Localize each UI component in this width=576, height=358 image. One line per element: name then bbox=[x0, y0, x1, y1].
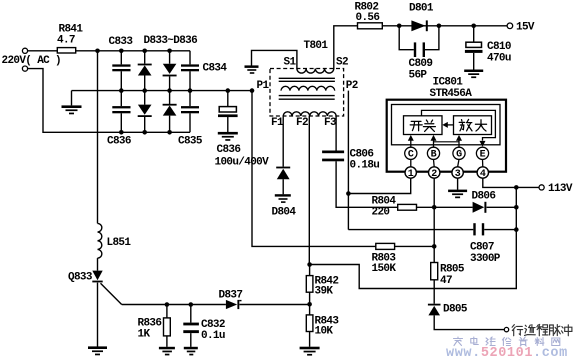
pin B bbox=[427, 147, 439, 160]
wire Q833 top bbox=[97, 258, 99, 271]
wire C807 line bbox=[348, 229, 516, 231]
svg-text:C835: C835 bbox=[178, 136, 203, 148]
node top rail D834 bbox=[167, 49, 172, 54]
diode D804 bbox=[272, 167, 297, 219]
svg-text:100u/400V: 100u/400V bbox=[215, 157, 270, 169]
wire D836 column bottom bbox=[169, 91, 171, 133]
wire C836 bridge column bbox=[120, 91, 122, 133]
svg-text:2: 2 bbox=[431, 169, 437, 180]
node feedback D806 bbox=[514, 205, 519, 210]
capacitor C809 bbox=[409, 42, 433, 81]
svg-text:39K: 39K bbox=[315, 286, 334, 298]
wire left vertical from R841 node down to L851 bbox=[97, 51, 99, 224]
resistor R843 bbox=[306, 315, 339, 337]
wire C809 parallel loop bbox=[399, 26, 439, 50]
wire pin3 to ground bbox=[457, 178, 459, 190]
node mid rail D833 bbox=[142, 88, 147, 93]
arrow G into amp bbox=[456, 135, 462, 147]
wire D835 column bottom bbox=[144, 91, 146, 133]
capacitor C810 bbox=[465, 41, 511, 65]
svg-text:F3: F3 bbox=[324, 117, 337, 129]
svg-text:56P: 56P bbox=[409, 70, 428, 82]
svg-text:G: G bbox=[456, 150, 462, 161]
wire AC ground stem bbox=[71, 91, 73, 106]
wire top rail bbox=[76, 50, 190, 52]
node 15V rail D801 right bbox=[437, 24, 442, 29]
svg-text:P1: P1 bbox=[257, 80, 270, 92]
diode D806 bbox=[472, 190, 496, 213]
node R803 pin2 bbox=[432, 244, 437, 249]
node bottom rail D835 bbox=[142, 130, 147, 135]
capacitor C807 bbox=[470, 223, 501, 265]
transformer S winding bbox=[284, 57, 348, 74]
node top rail C833 bbox=[119, 49, 124, 54]
svg-text:STR456A: STR456A bbox=[430, 88, 473, 100]
pin links C1 B2 G3 E4 bbox=[411, 159, 483, 167]
pin E bbox=[476, 147, 488, 160]
svg-text:113V: 113V bbox=[548, 183, 573, 195]
resistor R841 bbox=[57, 24, 83, 54]
ground C832 bbox=[184, 347, 198, 356]
wire D805 to flyback terminal bbox=[434, 315, 504, 329]
wire F3 lead to C806 bbox=[335, 116, 337, 151]
svg-text:P2: P2 bbox=[346, 80, 358, 92]
diode D801 bbox=[409, 3, 434, 32]
wire middle rail bbox=[72, 90, 253, 92]
svg-text:150K: 150K bbox=[372, 263, 397, 275]
node feedback 113V bbox=[514, 185, 519, 190]
svg-text:R805: R805 bbox=[440, 264, 465, 276]
wire C833 column bbox=[120, 51, 122, 91]
capacitor C835 bbox=[178, 106, 203, 148]
node bottom rail D836 bbox=[167, 130, 172, 135]
svg-text:S1: S1 bbox=[284, 57, 297, 69]
pin C bbox=[405, 147, 417, 160]
wire D834 column top bbox=[169, 51, 171, 91]
node 15V rail C810 bbox=[471, 24, 476, 29]
pin 3 bbox=[452, 167, 463, 180]
ground R836 bbox=[159, 347, 175, 356]
transformer T801 dashed box bbox=[270, 40, 344, 116]
capacitor C834 bbox=[181, 62, 227, 74]
svg-text:D804: D804 bbox=[272, 207, 297, 219]
svg-text:F1: F1 bbox=[271, 117, 284, 129]
node top rail R841 bbox=[95, 49, 100, 54]
wire R803 to pin2 column bbox=[395, 245, 435, 247]
wire S2 lead up to 15V rail bbox=[334, 26, 358, 69]
ground C836 electrolytic bbox=[218, 132, 238, 141]
pin 1 bbox=[405, 167, 416, 180]
svg-text:C809: C809 bbox=[409, 58, 433, 70]
svg-text:www.520101.com: www.520101.com bbox=[446, 346, 568, 358]
ground pin3 bbox=[448, 190, 467, 199]
node bottom rail C836b bbox=[119, 130, 124, 135]
arrow C into switch bbox=[408, 135, 414, 147]
resistor R803 bbox=[372, 243, 397, 274]
capacitor C806 bbox=[322, 149, 379, 172]
wire P2 lead down bbox=[347, 91, 349, 230]
IC switch block 开关 bbox=[404, 116, 443, 135]
ground Q833 bbox=[88, 346, 107, 355]
svg-text:47: 47 bbox=[440, 275, 452, 287]
wire C806 down and right to R804 bbox=[336, 161, 398, 207]
ground AC middle rail bbox=[62, 105, 82, 114]
svg-text:C833: C833 bbox=[109, 36, 134, 48]
label flyback pulse 行逆程脉冲 bbox=[512, 324, 572, 335]
wire Q833 gate diagonal bbox=[101, 283, 122, 304]
svg-text:C836: C836 bbox=[107, 136, 131, 148]
svg-text:T801: T801 bbox=[304, 40, 329, 52]
wire P2 node to pin1 bbox=[348, 178, 410, 193]
link B G bbox=[434, 141, 460, 143]
terminal 113V bbox=[539, 183, 573, 195]
svg-text:D837: D837 bbox=[219, 290, 243, 302]
svg-text:C807: C807 bbox=[470, 242, 494, 254]
transformer P winding bbox=[281, 80, 358, 92]
wire F2 lead down to R842 bbox=[308, 116, 310, 265]
wire Q833 emitter line to D837 to R842 mid node bbox=[122, 304, 310, 306]
wire F1 lead to D804 bbox=[282, 116, 284, 167]
node mid rail C834 bbox=[188, 88, 193, 93]
wire C836 electrolytic column bbox=[227, 91, 229, 132]
svg-text:10K: 10K bbox=[315, 325, 334, 337]
ground R843 bbox=[300, 347, 320, 356]
svg-text:C: C bbox=[408, 150, 414, 161]
svg-text:D833~D836: D833~D836 bbox=[144, 35, 198, 47]
resistor R805 bbox=[431, 263, 465, 288]
diode D833 bbox=[138, 64, 152, 76]
resistor R836 bbox=[138, 318, 171, 341]
svg-text:1K: 1K bbox=[138, 329, 151, 341]
transformer F winding bbox=[271, 112, 337, 129]
transformer core bbox=[279, 78, 335, 99]
ground S1 bbox=[245, 65, 259, 73]
svg-text:D801: D801 bbox=[409, 3, 434, 15]
diode D835 bbox=[138, 105, 152, 117]
arrow B into switch bbox=[431, 135, 437, 147]
wire pin4 to 113V bbox=[483, 178, 539, 187]
svg-text:L851: L851 bbox=[107, 237, 132, 249]
svg-text:1: 1 bbox=[408, 169, 414, 180]
node C832 bbox=[189, 302, 194, 307]
pin 2 bbox=[429, 167, 440, 180]
node P1 bbox=[250, 80, 270, 93]
feedback line switch to E bbox=[422, 110, 496, 140]
capacitor C833 bbox=[109, 36, 134, 71]
diode D805 bbox=[428, 304, 468, 316]
transistor Q833 bbox=[68, 271, 103, 284]
diode D836 bbox=[163, 104, 177, 116]
wire Q833 cathode to ground bbox=[97, 283, 99, 347]
wire 15V rail after R802 bbox=[382, 25, 507, 27]
resistor R842 bbox=[306, 276, 338, 298]
wire R805 to D805 bbox=[433, 280, 435, 304]
wire C810 stem bbox=[473, 26, 475, 70]
node top rail D833 bbox=[142, 49, 147, 54]
svg-text:4: 4 bbox=[480, 169, 486, 180]
wire C834 column bbox=[189, 51, 191, 91]
IC amp block 放大 bbox=[454, 116, 492, 135]
svg-text:0.1u: 0.1u bbox=[201, 330, 225, 342]
wire feedback loop R842 node to right rail bbox=[310, 187, 517, 288]
svg-text:0.18u: 0.18u bbox=[350, 160, 380, 172]
node 15V rail D801 left bbox=[397, 24, 402, 29]
svg-text:B: B bbox=[431, 150, 437, 161]
node feedback C807 bbox=[514, 227, 519, 232]
wire C835 column bbox=[189, 91, 191, 133]
node R842 R843 mid bbox=[307, 302, 312, 307]
node P2 junction bbox=[346, 191, 351, 196]
svg-text:C810: C810 bbox=[487, 41, 511, 53]
arrow into E bbox=[480, 141, 486, 147]
pin G bbox=[453, 147, 465, 160]
IC U801 outer box bbox=[387, 77, 506, 172]
IC inner box bbox=[392, 105, 501, 145]
svg-text:220V( AC ): 220V( AC ) bbox=[2, 55, 62, 67]
svg-text:IC801: IC801 bbox=[433, 77, 464, 89]
svg-text:3300P: 3300P bbox=[470, 253, 501, 265]
svg-text:15V: 15V bbox=[516, 21, 535, 33]
wire P1 branch down to R803 bbox=[252, 91, 376, 247]
terminal 15V bbox=[507, 21, 535, 33]
wire C832 stem bbox=[190, 305, 192, 347]
svg-text:0.56: 0.56 bbox=[356, 12, 380, 24]
node R842 top bbox=[307, 262, 312, 267]
wire pin2 node to D806 bbox=[434, 206, 516, 208]
svg-text:C836: C836 bbox=[217, 144, 241, 156]
svg-text:F2: F2 bbox=[296, 117, 308, 129]
resistor R802 bbox=[355, 2, 383, 29]
wire D833 column top bbox=[144, 51, 146, 91]
wire 220V bottom terminal to bottom rail bbox=[28, 69, 190, 133]
svg-text:Q833: Q833 bbox=[68, 272, 93, 284]
svg-text:470u: 470u bbox=[487, 53, 511, 65]
resistor R804 bbox=[372, 196, 417, 219]
svg-text:S2: S2 bbox=[336, 57, 348, 69]
svg-text:C834: C834 bbox=[203, 62, 228, 74]
terminal flyback pulse bbox=[504, 327, 508, 331]
node R836 bbox=[165, 302, 170, 307]
terminal 220V AC bbox=[2, 48, 62, 71]
arrow amp to switch bbox=[442, 122, 453, 128]
node mid rail C836 bbox=[226, 88, 231, 93]
svg-text:4.7: 4.7 bbox=[57, 35, 75, 47]
node mid rail C833 bbox=[119, 88, 124, 93]
svg-text:D805: D805 bbox=[443, 304, 468, 316]
inductor L851 bbox=[98, 223, 132, 258]
wire D804 to ground bbox=[282, 179, 284, 194]
svg-text:E: E bbox=[480, 150, 486, 161]
capacitor C832 bbox=[183, 319, 225, 342]
wire pin2 column down bbox=[433, 178, 435, 262]
diode D837 bbox=[219, 290, 243, 310]
svg-text:D806: D806 bbox=[472, 190, 496, 202]
capacitor C836 bridge bbox=[107, 106, 131, 148]
svg-text:3: 3 bbox=[455, 169, 461, 180]
node mid rail D834 bbox=[167, 88, 172, 93]
wire R804 to pin2 column node bbox=[417, 206, 435, 208]
wire R836 stem bbox=[166, 305, 168, 347]
ground D804 bbox=[275, 194, 291, 203]
ground C810 bbox=[464, 70, 483, 79]
wire R842 R843 chain bbox=[309, 265, 311, 347]
watermark 家电维修资料网 bbox=[454, 337, 560, 346]
diode D834 bbox=[163, 64, 177, 77]
pin 4 bbox=[477, 167, 488, 180]
node R804 pin2 bbox=[432, 205, 437, 210]
wire 220V top terminal to R841 bbox=[28, 50, 58, 52]
svg-text:220: 220 bbox=[372, 207, 390, 219]
wire S1 ground link bbox=[252, 50, 297, 68]
capacitor C836 electrolytic bbox=[215, 107, 270, 169]
